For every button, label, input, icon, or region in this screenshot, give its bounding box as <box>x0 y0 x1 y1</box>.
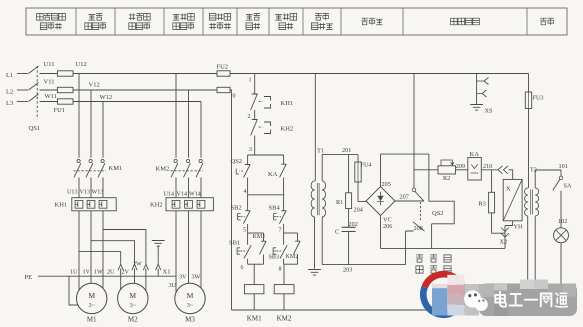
wire R3 to chuck return <box>492 213 505 233</box>
svg-text:L3: L3 <box>6 100 13 107</box>
svg-text:KA: KA <box>268 171 278 178</box>
table header cell 液压泵控制 <box>275 14 282 20</box>
svg-text:208: 208 <box>414 225 423 232</box>
svg-text:X2: X2 <box>500 239 508 246</box>
wire U12 drop to KM2 pole1 <box>175 74 177 158</box>
switch SA contact <box>560 170 562 176</box>
svg-text:1V: 1V <box>83 270 91 276</box>
fuse FU1 W-phase element <box>58 99 74 104</box>
fuse FU2 element on U12 rail <box>217 71 230 76</box>
svg-text:XS: XS <box>485 108 493 115</box>
wire node8 to KM2 coil <box>283 264 285 284</box>
svg-text:X1: X1 <box>163 269 171 276</box>
relay KA NO contact <box>280 155 287 195</box>
thermal relay KH1 box <box>72 198 116 211</box>
ground symbol at X1 PE pin <box>152 241 165 264</box>
table: column dividers <box>76 8 527 35</box>
contactor coil KM1 <box>244 285 264 294</box>
switch QS2 contact a (207) <box>412 188 416 192</box>
svg-text:207: 207 <box>400 194 409 201</box>
wire rail corner to FU3 <box>528 74 530 93</box>
connector X3 arrows <box>498 166 508 174</box>
svg-text:FU4: FU4 <box>361 162 372 169</box>
svg-text:U14: U14 <box>164 192 175 198</box>
svg-text:206: 206 <box>383 223 392 230</box>
svg-text:8: 8 <box>279 267 282 273</box>
wire X1 pin 2V to motor M2 <box>134 269 136 284</box>
svg-text:U11: U11 <box>44 61 55 68</box>
svg-text:2U: 2U <box>107 270 115 276</box>
wire FU4 to bridge AC-left corner 204 <box>358 182 367 201</box>
connector X1 pin 2V arrow <box>132 264 137 270</box>
svg-text:M1: M1 <box>87 316 97 324</box>
svg-text:210: 210 <box>483 163 492 170</box>
contactor KM2 main contact pole2 <box>187 159 190 162</box>
svg-text:M2: M2 <box>128 316 138 324</box>
svg-text:3~: 3~ <box>187 302 194 309</box>
table header cell 整流变压器 <box>315 14 322 21</box>
switch QS2 linkage (dashed) <box>419 202 421 222</box>
connector X1 pin 2U arrow <box>118 264 123 270</box>
thermal relay KH2 box <box>166 198 213 211</box>
transformer T2 core lines <box>531 190 533 215</box>
wire KH2 out 3V to motor M3 <box>188 211 190 284</box>
svg-text:KM1: KM1 <box>253 234 266 240</box>
wire C to 203 rail <box>348 232 350 265</box>
resistor R1 <box>346 193 352 209</box>
fuse FU4 <box>355 162 361 182</box>
thermal relay KH1 heater element 3 <box>99 200 107 208</box>
wire demag hook 205 to 208 side <box>429 154 454 224</box>
transformer T1 secondary winding <box>322 181 326 217</box>
svg-text:U13: U13 <box>67 190 78 196</box>
ground symbol at XS <box>470 105 483 111</box>
svg-text:R1: R1 <box>336 199 343 206</box>
rectifier VC diode symbol <box>377 196 383 202</box>
svg-text:6: 6 <box>241 265 244 271</box>
svg-text:4: 4 <box>244 189 247 195</box>
table header cell 整流器 <box>361 18 368 25</box>
watermark mosaic blocks <box>432 284 447 289</box>
svg-text:201: 201 <box>342 147 351 154</box>
svg-text:7: 7 <box>279 228 282 234</box>
svg-text:3U: 3U <box>169 283 177 289</box>
svg-text:V12: V12 <box>89 82 100 89</box>
svg-text:W11: W11 <box>45 93 57 100</box>
wire W12 drop to KM1 pole3 <box>102 102 104 158</box>
wire XS middle <box>476 81 478 94</box>
wire T1 secondary top to node 201 <box>322 155 358 181</box>
wire node 203 rail <box>322 264 405 266</box>
wire QS1 to FU1 V-phase <box>40 89 58 91</box>
svg-text:2W: 2W <box>133 262 142 268</box>
watermark text 电工一网通 <box>500 292 506 307</box>
wire R2 to KA coil <box>456 169 468 171</box>
wire KH1 out 1W to motor M1 <box>102 211 104 288</box>
switch QS1 linkage (dashed) <box>36 66 38 119</box>
svg-text:1U: 1U <box>70 270 78 276</box>
switch QS2 aux contact <box>244 155 251 195</box>
contactor coil KM2 <box>274 285 294 294</box>
svg-text:M: M <box>88 291 95 300</box>
wire T1 secondary bottom to node 203 rail <box>321 217 323 265</box>
wire KH2 out 3W to motor M3 <box>200 211 202 288</box>
svg-text:X: X <box>506 186 511 193</box>
fuse FU1 V-phase element <box>58 87 74 92</box>
svg-text:QS1: QS1 <box>29 125 41 132</box>
svg-text:KM2: KM2 <box>156 166 170 173</box>
svg-text:FU3: FU3 <box>533 95 544 102</box>
pushbutton SB1 (NO start) <box>244 233 251 264</box>
fuse FU1 U-phase element <box>58 71 74 76</box>
connector X1 PE pin arrow <box>156 264 161 270</box>
svg-text:YH: YH <box>514 224 523 231</box>
switch QS2 position label 退放吸 <box>416 255 423 262</box>
svg-text:U12: U12 <box>76 61 87 68</box>
wire PE to motor M1 frame <box>69 276 78 305</box>
wire tap 1W to plug X1 pin 2W <box>103 230 146 264</box>
svg-text:1W: 1W <box>94 270 103 276</box>
watermark grey banner <box>479 284 577 317</box>
wire 205 line to demag switch <box>381 153 429 155</box>
wire node 5 join <box>248 232 264 234</box>
contactor KM2 main contact pole1 <box>174 159 177 162</box>
svg-text:3V: 3V <box>179 275 187 281</box>
switch QS2 contact b (208) <box>413 222 425 231</box>
svg-text:KM1: KM1 <box>247 315 262 323</box>
wire R1 to capacitor C <box>348 209 350 228</box>
wire node3 split top <box>248 154 284 156</box>
wire node 4 join <box>248 194 284 196</box>
svg-text:M: M <box>129 291 136 300</box>
contactor KM2 linkage (dashed) <box>171 170 204 172</box>
connector X2 arrows <box>501 228 509 238</box>
svg-text:SB3: SB3 <box>269 255 280 261</box>
wire 208 contact left to 203 rail <box>406 231 414 265</box>
wire rail to node 1 <box>254 74 256 95</box>
svg-text:FU1: FU1 <box>54 107 66 114</box>
socket XS upper arrow <box>477 78 489 85</box>
svg-text:2: 2 <box>248 114 251 120</box>
svg-text:205: 205 <box>382 181 391 188</box>
wire X1 pin 2U to motor M2 <box>120 269 122 290</box>
wire T2 primary bottom to rail <box>527 216 529 310</box>
svg-text:5: 5 <box>243 228 246 234</box>
svg-text:SA: SA <box>564 183 572 190</box>
svg-text:KH1: KH1 <box>281 100 294 107</box>
switch QS2 position label 磁松合 <box>416 266 423 273</box>
wire chuck bottom to X2 <box>505 221 513 249</box>
wire PE line <box>38 275 176 277</box>
wire bridge right corner to node 207 <box>395 200 424 202</box>
svg-text:SB1: SB1 <box>229 240 240 247</box>
wire node6 to KM1 coil <box>253 264 255 284</box>
wire bus U12 / top supply rail <box>73 73 529 75</box>
svg-text:W14: W14 <box>189 192 201 198</box>
wire bridge minus 206 drop <box>380 216 382 249</box>
wire QS1 to FU1 U-phase <box>40 73 58 75</box>
table: header frame <box>26 8 567 35</box>
thermal relay KH2 heater element 3 <box>197 200 205 208</box>
wire KH2 out 3U to motor M3 <box>175 211 177 293</box>
transformer T2 primary winding <box>525 188 528 216</box>
table header cell 照明 <box>540 18 547 25</box>
capacitor C plates <box>342 227 356 231</box>
svg-text:202: 202 <box>349 221 358 228</box>
wire 208 contact right to 206 run <box>431 224 433 249</box>
resistor R2 (adjustable) <box>438 166 456 174</box>
table header cell 砂轮控制 <box>246 14 253 20</box>
svg-text:W13: W13 <box>92 190 104 196</box>
svg-text:209: 209 <box>456 163 465 170</box>
svg-text:SB2: SB2 <box>231 205 242 212</box>
relay coil KA <box>468 158 482 181</box>
lamp EL <box>554 228 569 243</box>
svg-text:M3: M3 <box>185 316 195 324</box>
motor M1 circle <box>77 283 107 313</box>
svg-text:KH2: KH2 <box>150 202 163 209</box>
wire control bottom rail <box>232 309 562 311</box>
contactor KM1 main contact pole2 <box>89 159 92 162</box>
wire tap 1U to plug X1 pin 2U <box>79 252 121 264</box>
svg-text:3W: 3W <box>192 275 201 281</box>
svg-text:R2: R2 <box>443 175 450 182</box>
switch QS1 pole 2 blade <box>29 83 39 91</box>
transformer T2 secondary winding <box>535 188 538 216</box>
contactor KM2 main contact pole3 <box>199 159 202 162</box>
wire T2 secondary bottom to rail <box>534 216 536 310</box>
svg-text:KM1: KM1 <box>109 165 123 172</box>
svg-text:V14: V14 <box>177 192 188 198</box>
thermal relay KH1 NC contact <box>251 94 258 120</box>
svg-text:M: M <box>187 291 194 300</box>
svg-text:C: C <box>335 229 339 236</box>
table header cell 电源开关及保护 <box>37 14 44 21</box>
fuse FU4 lead from 201 <box>357 155 359 162</box>
svg-text:PE: PE <box>25 274 33 281</box>
wire V12 drop to KM1 pole2 <box>90 90 92 158</box>
wire bus V12 <box>73 89 217 91</box>
wire 210 tap to R3 <box>491 170 493 193</box>
wire XS to ground <box>476 94 478 105</box>
svg-text:203: 203 <box>343 267 352 274</box>
wire node 8 join <box>284 263 298 265</box>
wire L1 to QS1 <box>17 73 28 75</box>
svg-text:KM2: KM2 <box>286 254 299 260</box>
wire bridge plus 205 riser <box>380 154 382 186</box>
wire KM2 coil to bottom rail <box>283 294 285 310</box>
contactor KM1 main contact pole3 <box>101 159 104 162</box>
wire L3 to QS1 <box>17 101 28 103</box>
wire lamp to bottom rail <box>560 243 562 310</box>
rectifier VC bridge diamond <box>366 187 395 216</box>
svg-text:V11: V11 <box>44 79 55 86</box>
wire L2 to QS1 <box>17 89 28 91</box>
wire node 6 join <box>248 263 264 265</box>
contactor KM1 main contact pole1 <box>77 159 80 162</box>
wire tap 1V to plug X1 pin 2V <box>91 241 135 264</box>
wire 206 bottom run to chuck return <box>381 247 506 249</box>
svg-text:204: 204 <box>354 207 363 214</box>
thermal relay KH2 heater element 2 <box>185 200 193 208</box>
wire 201 tap to R1 <box>348 155 350 193</box>
svg-text:KA: KA <box>470 151 480 158</box>
svg-text:3~: 3~ <box>88 302 95 309</box>
wire U12 drop to KM1 pole1 <box>78 74 80 158</box>
electromagnetic chuck X box <box>503 179 522 220</box>
socket XS lower arrow <box>477 90 487 97</box>
table header cell 砂轮电动机 <box>89 14 96 20</box>
switch QS1 pole 3 blade <box>29 94 39 102</box>
table header cell 控制电路保护 <box>209 14 216 21</box>
motor M3 circle <box>175 283 205 313</box>
pushbutton SB4 (NC stop) <box>279 195 286 233</box>
wire X1 pin 2W to motor M2 <box>145 269 147 291</box>
connector X1 pin 2W arrow <box>143 264 148 270</box>
resistor R3 <box>489 192 495 213</box>
svg-text:T1: T1 <box>317 148 324 155</box>
wire bus W12 <box>73 101 201 103</box>
svg-text:QS2: QS2 <box>432 210 444 217</box>
svg-text:102: 102 <box>558 218 567 225</box>
motor M2 circle <box>118 283 148 313</box>
pushbutton SB2 (NC stop) <box>243 195 250 233</box>
svg-text:L1: L1 <box>6 72 13 79</box>
svg-text:V13: V13 <box>80 190 91 196</box>
wire QS1 to FU1 W-phase <box>40 101 58 103</box>
svg-text:QS2: QS2 <box>231 158 243 165</box>
ground symbol under T1 <box>308 270 321 276</box>
fuse FU3 <box>525 92 531 109</box>
wire node 7 join <box>284 232 298 234</box>
wire top rail drop to 207 contact <box>413 74 415 189</box>
wire X1 PE pin to PE line <box>157 269 159 277</box>
svg-text:W12: W12 <box>100 94 113 101</box>
svg-text:101: 101 <box>559 163 568 170</box>
svg-text:R3: R3 <box>479 201 486 208</box>
wire control rail 0 (left vertical) <box>230 90 232 310</box>
wire KM1 coil to bottom rail <box>253 294 255 310</box>
contactor KM1 linkage (dashed) <box>74 170 107 172</box>
wire V12 drop to KM2 pole2 <box>188 90 190 158</box>
table header cell 电磁吸盘 <box>451 18 458 25</box>
wire 207 to R2 <box>414 169 438 171</box>
fuse FU2 second element on V12 <box>217 87 230 92</box>
contactor KM2 aux NO contact <box>294 233 301 264</box>
contactor KM1 aux NO contact <box>260 233 267 264</box>
svg-text:0: 0 <box>233 93 236 100</box>
svg-text:1: 1 <box>249 78 252 84</box>
svg-text:L2: L2 <box>6 89 13 96</box>
wire KH1 out 1U to motor M1 <box>78 211 80 292</box>
wire W12 corner down to KM2 pole3 <box>200 102 202 158</box>
wire KH1 out 1V to motor M1 <box>90 211 92 284</box>
wire top rail to T1 primary <box>314 74 316 182</box>
switch QS1 pole 1 blade <box>29 66 39 74</box>
wire T1 primary to ground <box>314 217 316 269</box>
thermal relay KH2 heater element 1 <box>172 200 180 208</box>
transformer T1 core lines <box>317 183 319 215</box>
svg-text:3: 3 <box>249 147 252 153</box>
table header cell 冷却泵电动机 <box>129 14 136 21</box>
svg-text:FU2: FU2 <box>217 64 229 71</box>
svg-text:SB4: SB4 <box>269 205 281 212</box>
pushbutton SB3 (NO start) <box>280 233 287 264</box>
wire rail tap to XS socket <box>476 74 478 82</box>
wire KA coil to connector <box>481 169 497 171</box>
thermal relay KH1 heater element 2 <box>87 200 95 208</box>
watermark logo ring <box>425 274 464 304</box>
table header cell 液压泵电动机 <box>173 14 180 20</box>
svg-text:KM2: KM2 <box>277 315 292 323</box>
wire T2 secondary top to node 101 <box>535 170 561 188</box>
thermal relay KH2 NC contact <box>251 120 258 156</box>
svg-text:3~: 3~ <box>130 302 137 309</box>
svg-text:KH2: KH2 <box>281 126 294 133</box>
svg-text:KH1: KH1 <box>55 202 68 209</box>
transformer T1 primary winding <box>311 181 315 217</box>
wire connector to chuck X <box>509 170 513 180</box>
wire FU3 to T2 primary <box>528 109 530 189</box>
watermark WeChat icon <box>464 290 481 307</box>
svg-text:2V: 2V <box>122 270 130 276</box>
thermal relay KH1 heater element 1 <box>75 200 83 208</box>
